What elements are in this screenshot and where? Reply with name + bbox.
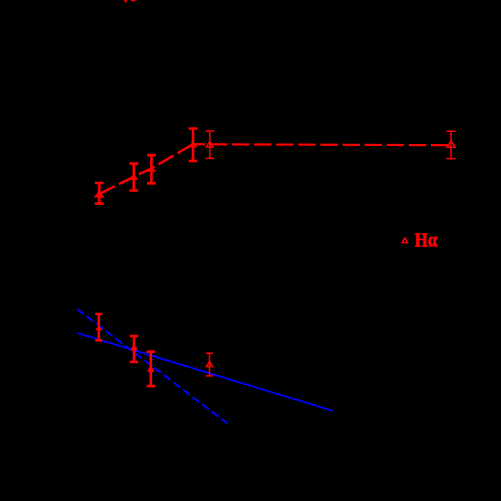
upper error bar P4 [189, 129, 198, 162]
upper thin error bar P6 [446, 131, 455, 158]
upper open triangle marker P5 [206, 141, 213, 147]
red dashed connecting line, flat part P4-P6 [193, 144, 451, 145]
upper thin error bar P5 [205, 131, 214, 158]
lower error bar F2 [130, 336, 138, 362]
upper open triangle marker P1 [96, 192, 103, 197]
upper filled triangle marker P4 [189, 141, 197, 148]
legend open triangle marker [402, 238, 407, 243]
lower filled triangle marker F2 [130, 344, 138, 350]
upper open triangle marker P6 [447, 141, 455, 147]
upper error bar P1 [95, 183, 104, 204]
lower filled triangle marker F1 [95, 325, 102, 330]
lower open triangle marker F4 [206, 361, 212, 366]
upper filled triangle marker P2 [130, 173, 138, 180]
red dashed connecting line, rising part P1-P4 [99, 144, 193, 194]
svg-text:Hα: Hα [415, 229, 438, 251]
lower thin error bar F4 [206, 353, 213, 376]
lower error bar F3 [147, 352, 155, 386]
blue dashed fit line [77, 309, 228, 424]
upper error bar P2 [129, 164, 138, 191]
upper error bar P3 [147, 155, 156, 183]
lower error bar F1 [95, 314, 102, 340]
lower filled triangle marker F3 [147, 366, 155, 372]
upper filled triangle marker P3 [147, 165, 155, 172]
blue solid fit line [78, 333, 333, 411]
clipped red mark (error-bar tip) at top edge [124, 0, 126, 2]
clipped red dash (cap) at top edge [131, 0, 136, 1]
